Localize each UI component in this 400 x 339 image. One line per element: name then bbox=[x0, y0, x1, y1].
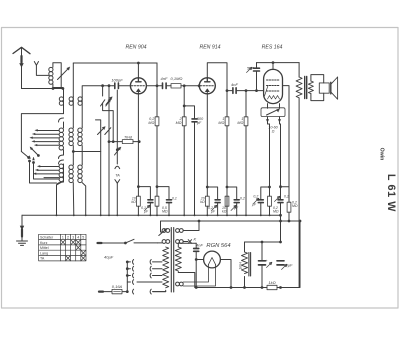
svg-text:TA: TA bbox=[115, 173, 120, 177]
wire RES164 screen to rail bbox=[283, 86, 290, 221]
pickup line TA bbox=[115, 90, 121, 215]
decoupling cap 0,2uF output bbox=[258, 186, 270, 215]
svg-text:4nF: 4nF bbox=[196, 242, 203, 247]
RF transformer row1 coil a bbox=[59, 89, 63, 114]
transformer primary winding bbox=[163, 247, 169, 288]
mains switch bbox=[125, 239, 158, 244]
mid switch blade pair bbox=[105, 128, 111, 135]
ground bus bbox=[22, 214, 281, 216]
switch tap fan row3 bbox=[33, 165, 59, 177]
wire screen jog bbox=[281, 186, 290, 188]
trimmer 5nF bbox=[254, 63, 260, 92]
mains plug lower lead bbox=[99, 291, 112, 293]
loudspeaker bbox=[319, 77, 337, 99]
voltage selector column bbox=[126, 260, 133, 295]
svg-text:MΩ: MΩ bbox=[237, 121, 243, 125]
wire grid line from coil block to tube bbox=[82, 86, 113, 97]
svg-text:REN 914: REN 914 bbox=[199, 45, 220, 51]
filter choke bbox=[242, 242, 251, 288]
bypass cap 0,1uF bbox=[138, 186, 153, 216]
RF transformer row1 coil b bbox=[69, 97, 73, 127]
grid leak 1 MOhm output bbox=[244, 90, 248, 216]
component value labels top bbox=[111, 65, 254, 87]
winding bottom lead bbox=[153, 290, 166, 291]
wire bus corner down to RF coil bbox=[72, 63, 74, 97]
screen resistor 10k bbox=[225, 193, 229, 206]
filter cap 4uF second bbox=[277, 261, 284, 265]
heater winding primary side bbox=[159, 228, 170, 235]
table cross marks bbox=[61, 240, 86, 260]
earth ground symbol bbox=[17, 215, 28, 245]
svg-text:Ω: Ω bbox=[272, 130, 275, 134]
antenna coil L1 (variable) bbox=[49, 63, 70, 89]
filter cap 4uF first bbox=[259, 242, 266, 288]
svg-text:0,2: 0,2 bbox=[284, 195, 289, 199]
svg-text:MΩ: MΩ bbox=[218, 121, 224, 125]
svg-text:kΩ: kΩ bbox=[200, 200, 205, 204]
svg-text:0,16A: 0,16A bbox=[112, 284, 123, 289]
trimmer TrHd bbox=[108, 140, 140, 144]
junction bbox=[288, 220, 290, 222]
cathode line REN914 with resistor 20k bbox=[205, 94, 209, 215]
small switch blades top bbox=[101, 99, 111, 106]
wire REN914 anode loop bbox=[207, 63, 227, 91]
output transformer T2 bbox=[296, 63, 324, 288]
wire left feeder bbox=[21, 114, 63, 152]
switch tap fan row2 bbox=[30, 129, 59, 146]
svg-text:2: 2 bbox=[67, 236, 69, 240]
svg-text:Lang: Lang bbox=[40, 251, 48, 255]
grid cap 500pF branch bbox=[183, 105, 197, 215]
svg-text:K: K bbox=[194, 236, 197, 241]
wire rectifier output bbox=[220, 260, 231, 288]
rectifier filament winding bbox=[176, 268, 216, 287]
capacitor 4nF rectifier bbox=[194, 243, 204, 287]
junction bbox=[198, 85, 200, 87]
wire pot left leg down bbox=[268, 124, 272, 215]
mains plug upper lead bbox=[98, 242, 126, 244]
wire antenna to coil block bbox=[22, 88, 64, 90]
svg-text:40µF: 40µF bbox=[104, 255, 114, 260]
coil row3 b bbox=[69, 164, 74, 215]
HV secondary winding bbox=[175, 243, 196, 287]
tube RGN 564 bbox=[204, 251, 221, 268]
coil row3 a (tapped) bbox=[57, 160, 64, 185]
coupling cap 4nF to output tube bbox=[227, 88, 264, 94]
svg-text:MΩ: MΩ bbox=[292, 204, 298, 208]
wire tube anode to bus bbox=[137, 63, 139, 78]
svg-text:3: 3 bbox=[72, 236, 74, 240]
svg-text:100pF: 100pF bbox=[111, 77, 123, 82]
B+ bottom rail bbox=[195, 221, 300, 288]
bias winding with K lead bbox=[176, 240, 192, 244]
junction bbox=[272, 62, 274, 64]
ground bus junction dots bbox=[56, 214, 271, 216]
junction bbox=[138, 62, 140, 64]
svg-text:MΩ: MΩ bbox=[273, 210, 279, 214]
screen feed line x157 with resistor 0,2 MOhm bbox=[155, 63, 159, 215]
resistor value labels mid bbox=[115, 117, 278, 178]
band switch blade S1a bbox=[21, 152, 29, 159]
decoupling cap 0,2uF bbox=[226, 186, 239, 215]
svg-text:1mH: 1mH bbox=[239, 262, 243, 270]
primary tap plugs bbox=[137, 260, 166, 295]
tube REN 904 bbox=[130, 78, 146, 94]
svg-text:TrHd: TrHd bbox=[124, 135, 133, 139]
psu labels bbox=[104, 236, 293, 288]
RF transformer row1 coil c bbox=[78, 97, 82, 127]
wire link row2 to row3 bbox=[73, 152, 100, 165]
svg-text:1: 1 bbox=[62, 236, 64, 240]
svg-text:1kΩ: 1kΩ bbox=[268, 280, 275, 285]
grid leak 2 MOhm bbox=[182, 86, 186, 216]
tube REN 914 bbox=[199, 78, 215, 94]
junction bbox=[198, 220, 200, 222]
junction bbox=[183, 85, 185, 87]
svg-text:Mittel: Mittel bbox=[40, 246, 49, 250]
junction bbox=[299, 220, 301, 222]
antenna input fork bbox=[34, 62, 49, 76]
B+ filtered line bbox=[245, 241, 282, 243]
wire coil row3 a to ground bus bbox=[57, 183, 62, 216]
cathode line REN904 with resistor 10k bbox=[137, 94, 141, 215]
switched winding primary side bbox=[158, 240, 170, 244]
svg-text:MΩ: MΩ bbox=[176, 121, 182, 125]
power transformer core bbox=[171, 228, 173, 293]
hum pot 10-60 Ohm bbox=[261, 104, 285, 124]
tuning coil row2 b bbox=[69, 127, 73, 152]
capacitor 4nF coupling bbox=[163, 83, 172, 89]
svg-text:RGN 564: RGN 564 bbox=[206, 243, 230, 249]
tube RES 164 bbox=[264, 63, 283, 104]
top supply bus (left) bbox=[73, 62, 157, 64]
smoothing resistor 1k bbox=[267, 285, 277, 289]
switch table grid bbox=[39, 234, 86, 261]
svg-text:pF: pF bbox=[196, 121, 202, 125]
junction bbox=[72, 151, 74, 153]
svg-text:4: 4 bbox=[77, 236, 79, 240]
heater bus bbox=[161, 221, 301, 232]
band switch blade S1b bbox=[30, 147, 39, 156]
junction bbox=[156, 85, 158, 87]
svg-text:0,2: 0,2 bbox=[253, 195, 258, 199]
fuse 0,16A bbox=[112, 289, 127, 293]
table text bbox=[40, 235, 84, 260]
antenna symbol bbox=[13, 47, 30, 88]
capacitor 100pF bbox=[113, 83, 130, 89]
bypass cap 0,1 bbox=[156, 186, 171, 216]
svg-text:0,1: 0,1 bbox=[172, 197, 177, 201]
tuning coil row2 a (tapped) bbox=[59, 118, 64, 159]
svg-text:REN 904: REN 904 bbox=[125, 45, 146, 51]
anode load 1 MOhm bbox=[225, 90, 229, 216]
bypass cap 0,2uF bbox=[206, 186, 220, 215]
junction bbox=[52, 88, 54, 90]
svg-text:5: 5 bbox=[82, 236, 84, 240]
wire plate output line bbox=[147, 85, 162, 87]
tuning coil row2 c bbox=[78, 127, 82, 152]
svg-text:4nF: 4nF bbox=[161, 76, 168, 81]
svg-text:kΩ: kΩ bbox=[222, 210, 227, 214]
svg-text:Owin: Owin bbox=[379, 148, 385, 161]
tube labels bbox=[125, 45, 282, 51]
rectifier heater winding secondary bbox=[176, 221, 199, 232]
support line x100.7 bbox=[96, 120, 106, 215]
resistor 0,1 MOhm horizontal bbox=[171, 84, 199, 88]
resistor 0,2 MOhm right bbox=[287, 202, 291, 212]
resistor and cap labels bottom row bbox=[131, 195, 298, 214]
svg-text:Kurz: Kurz bbox=[40, 241, 48, 245]
coil row3 c bbox=[78, 164, 86, 215]
top bus right bbox=[257, 62, 300, 64]
B+ riser line bbox=[278, 124, 283, 242]
switch contact studs bbox=[29, 156, 59, 184]
svg-text:kΩ: kΩ bbox=[131, 200, 136, 204]
svg-text:RES 164: RES 164 bbox=[262, 45, 283, 51]
svg-text:MΩ: MΩ bbox=[162, 210, 168, 214]
svg-text:MΩ: MΩ bbox=[148, 121, 154, 125]
svg-text:4nF: 4nF bbox=[231, 82, 238, 87]
svg-text:0,2: 0,2 bbox=[240, 197, 245, 201]
support line x109 bbox=[106, 85, 112, 216]
link line x113 bbox=[102, 85, 114, 143]
svg-text:Schalter: Schalter bbox=[40, 235, 54, 239]
svg-text:L 61 W: L 61 W bbox=[385, 174, 397, 212]
svg-text:+: + bbox=[266, 259, 268, 263]
svg-text:TA: TA bbox=[40, 257, 45, 261]
svg-text:0,1MΩ: 0,1MΩ bbox=[171, 76, 183, 81]
cap pointer ticks bbox=[145, 67, 287, 269]
